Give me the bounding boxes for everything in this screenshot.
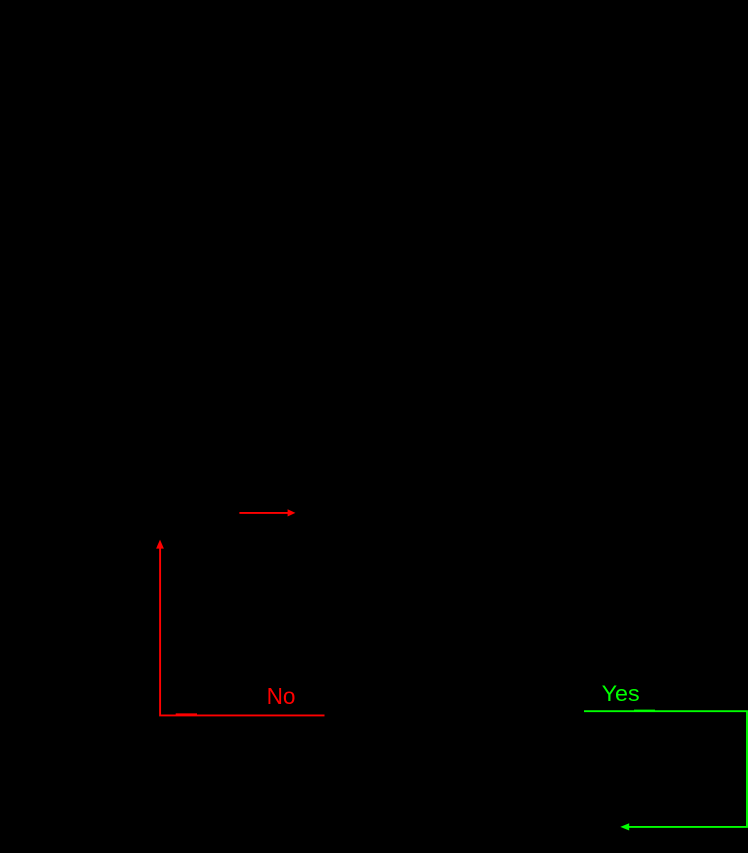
node label: No <box>267 683 296 709</box>
svg-text:Yes: Yes <box>602 681 640 706</box>
wire: red No edge (horizontal then up with arrowhead) <box>156 540 324 716</box>
wire: green Yes edge (right, down, left with arrowhead) <box>584 711 747 831</box>
svg-text:No: No <box>267 683 296 709</box>
node label: Yes <box>602 681 640 706</box>
wire: short red arrow edge <box>239 509 295 516</box>
